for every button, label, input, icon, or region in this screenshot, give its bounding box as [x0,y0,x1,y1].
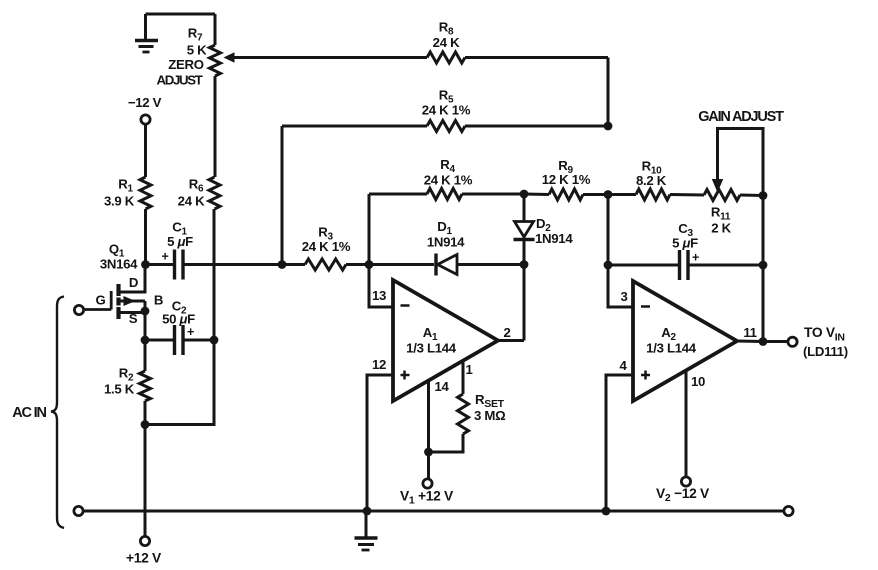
wire [369,193,427,196]
node [759,261,768,270]
wire [144,125,147,178]
svg-text:24 K: 24 K [178,194,205,209]
wire [144,209,147,265]
svg-text:3N164: 3N164 [100,257,138,272]
wire [465,56,608,59]
svg-text:24 K: 24 K [433,35,460,50]
node [365,260,374,269]
ground [135,14,158,52]
wire [462,361,465,394]
node [604,261,613,270]
node [141,260,150,269]
svg-text:1/3 L144: 1/3 L144 [406,341,457,356]
svg-text:12 K 1%: 12 K 1% [542,172,591,187]
resistor R8 [427,20,465,64]
capacitor C1 [146,220,216,280]
svg-text:1.5 K: 1.5 K [104,382,135,397]
node [141,307,150,316]
wire [146,13,216,16]
terminal -12 V [128,95,162,124]
potentiometer R11 [704,190,740,236]
svg-text:14: 14 [434,379,449,394]
wire [282,125,427,128]
svg-text:3: 3 [620,289,627,304]
wiper arrow of R7 [224,52,428,62]
svg-text:ZERO: ZERO [168,57,203,72]
resistor R4 [424,157,473,200]
wire [718,129,764,196]
svg-text:AC IN: AC IN [12,405,46,421]
wire [214,14,217,45]
wire [763,340,788,343]
svg-text:1N914: 1N914 [427,235,465,250]
wire [498,339,524,342]
svg-text:1: 1 [465,362,472,377]
wire [346,263,434,266]
svg-text:13: 13 [372,288,386,303]
wire [427,452,430,479]
wire [367,375,393,511]
svg-text:1N914: 1N914 [535,231,573,246]
wire [465,125,608,128]
node [759,337,768,346]
svg-text:5 μF: 5 μF [167,234,193,249]
node [210,336,219,345]
resistor R9 [542,158,591,200]
wire [608,265,633,307]
brace AC IN [12,297,64,529]
wire [740,194,763,198]
wire [670,193,704,197]
transistor Q1 [84,242,164,327]
wire [607,195,610,266]
node [278,260,287,269]
svg-text:B: B [154,293,163,308]
svg-text:24 K 1%: 24 K 1% [302,239,351,254]
wire [144,311,147,340]
svg-text:24 K 1%: 24 K 1% [422,103,471,118]
svg-text:24 K 1%: 24 K 1% [424,173,473,188]
capacitor C3 [608,221,763,280]
label GAIN ADJUST [698,109,784,125]
node [759,191,768,200]
node [604,190,613,199]
svg-text:2: 2 [503,325,510,340]
terminal AC IN gate [74,305,83,314]
svg-text:12: 12 [372,357,386,372]
svg-text:ADJUST: ADJUST [157,73,203,88]
wire [145,340,214,425]
terminal output TO VIN [788,325,848,359]
node [141,420,150,429]
wire [523,265,526,341]
resistor R3 [302,225,351,271]
svg-text:G: G [96,293,106,308]
wire [608,193,636,196]
svg-text:5 μF: 5 μF [672,236,698,251]
op-amp A1 [372,280,511,401]
wire [214,76,217,177]
wire [429,434,464,452]
diode D2 [514,194,574,265]
terminal +12 V [126,536,162,565]
wire [144,425,147,537]
wire [762,196,765,266]
terminal AC IN bottom [74,506,83,515]
resistor R2 [104,366,151,402]
svg-text:+: + [692,251,699,265]
terminal V1 +12 V [400,479,454,507]
svg-text:3 MΩ: 3 MΩ [474,408,506,423]
potentiometer R7 [157,26,221,88]
node [520,190,529,199]
svg-text:−12 V: −12 V [128,95,162,110]
wire [213,209,216,340]
svg-text:GAIN ADJUST: GAIN ADJUST [698,109,784,125]
wire [368,194,371,265]
terminal bottom right [784,506,793,515]
capacitor C2 [145,299,214,356]
wire [762,265,765,342]
node [141,336,150,345]
wire [83,510,784,513]
wire [281,126,284,265]
svg-text:2 K: 2 K [711,221,731,236]
svg-text:4: 4 [619,358,627,373]
resistor R10 [636,159,670,201]
svg-text:S: S [129,311,138,326]
svg-text:8.2 K: 8.2 K [636,173,667,188]
wire [583,193,608,196]
wire [457,263,524,266]
node [363,507,372,516]
node [520,260,529,269]
wire [427,381,430,452]
svg-text:10: 10 [691,374,705,389]
wire [215,263,305,266]
wire [144,340,147,371]
resistor R5 [422,88,471,132]
wire [524,193,549,197]
svg-text:D: D [129,275,138,290]
wire [737,340,763,344]
wire [606,375,633,511]
svg-text:11: 11 [743,325,756,340]
ground [355,511,378,550]
terminal V2 -12 V [656,477,710,504]
wire [462,193,524,196]
node [604,122,613,131]
resistor RSET [458,392,507,434]
node [602,507,611,516]
svg-text:50 μF: 50 μF [162,312,195,327]
node [424,448,433,457]
svg-text:(LD111): (LD111) [803,344,848,359]
wire [369,265,393,308]
svg-text:3.9 K: 3.9 K [104,194,135,209]
wire [607,58,610,127]
svg-text:+: + [162,250,169,264]
wiper arrow of R11 [712,179,723,193]
resistor R1 [104,177,151,210]
svg-text:1/3 L144: 1/3 L144 [646,341,697,356]
op-amp A2 [619,281,756,401]
wire [144,401,147,425]
diode D1 [427,219,465,276]
svg-text:5 K: 5 K [187,43,207,58]
svg-text:+12 V: +12 V [126,551,162,566]
svg-text:+: + [187,325,194,339]
resistor R6 [178,177,220,210]
wire [685,371,688,477]
